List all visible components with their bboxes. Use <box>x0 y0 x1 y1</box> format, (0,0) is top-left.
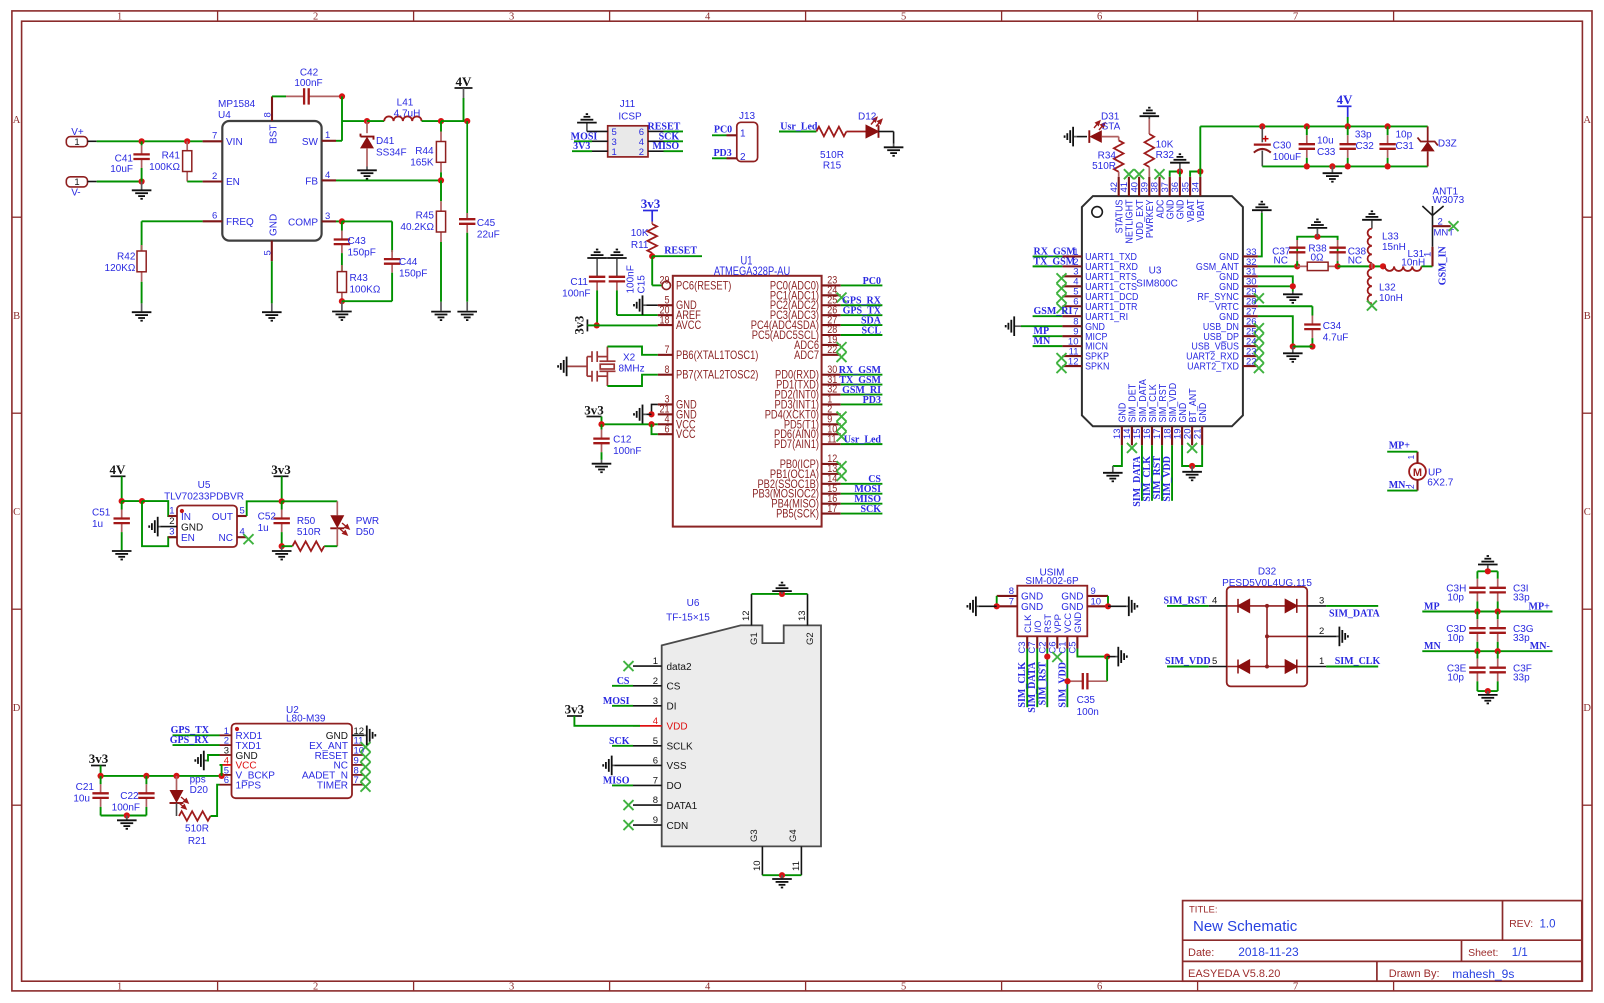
IC U5 TLV70233PDBVR <box>177 506 237 548</box>
wire pin33 to ground <box>1258 213 1262 256</box>
junction <box>124 812 130 818</box>
net label GPS_TX <box>173 734 220 736</box>
svg-text:U6: U6 <box>687 598 700 609</box>
svg-text:STA: STA <box>1102 122 1121 133</box>
svg-text:TF-15×15: TF-15×15 <box>666 612 710 623</box>
svg-text:MISO: MISO <box>653 141 680 152</box>
capacitor C3D 10p <box>1476 612 1478 620</box>
svg-text:Usr_Led: Usr_Led <box>844 435 882 446</box>
svg-text:1: 1 <box>740 129 746 140</box>
svg-text:GSM_IN: GSM_IN <box>1438 246 1449 286</box>
svg-text:5: 5 <box>1212 656 1217 667</box>
U1 pin 2 PD4(XCKT0) <box>822 413 841 415</box>
wire pins 9,10 <box>1107 596 1109 606</box>
ground <box>577 114 597 131</box>
ground GND3 GND21 <box>652 404 658 414</box>
net label MISO <box>612 784 633 786</box>
svg-text:TX_GSM: TX_GSM <box>1034 256 1076 267</box>
svg-text:7: 7 <box>354 775 359 786</box>
svg-text:100KΩ: 100KΩ <box>350 285 381 296</box>
svg-text:IN: IN <box>181 512 191 523</box>
junction <box>1309 343 1315 349</box>
svg-text:3: 3 <box>509 981 514 992</box>
svg-text:9: 9 <box>1091 586 1096 597</box>
svg-text:7: 7 <box>212 131 217 142</box>
svg-text:7: 7 <box>1293 981 1298 992</box>
svg-text:6X2.7: 6X2.7 <box>1427 478 1454 489</box>
capacitor C42 <box>272 95 286 97</box>
IC U3 SIM800C <box>1082 196 1243 426</box>
U6 pin 9 CDN <box>633 824 662 826</box>
U2 pin 9 NC <box>352 764 364 766</box>
svg-text:C44: C44 <box>399 257 418 268</box>
wire bottom <box>1477 690 1497 692</box>
svg-text:6: 6 <box>1097 981 1102 992</box>
no-connect <box>361 752 371 762</box>
net label CS <box>612 685 633 687</box>
svg-text:GND: GND <box>1219 282 1239 292</box>
svg-text:D12: D12 <box>858 112 877 123</box>
svg-text:REV:: REV: <box>1509 918 1533 930</box>
svg-text:SIM_CLK: SIM_CLK <box>1147 384 1157 423</box>
svg-text:C: C <box>13 507 20 518</box>
svg-text:GND: GND <box>1117 402 1127 422</box>
ground <box>132 303 152 320</box>
net label TX_GSM <box>841 384 883 386</box>
U1 pin 26 PC3(ADC3) <box>822 314 841 316</box>
ground <box>1252 202 1272 213</box>
svg-text:COMP: COMP <box>288 218 318 229</box>
ground <box>1116 647 1127 667</box>
U6 pin 4 VDD <box>633 725 662 727</box>
U3 pin 4 UART1_CTS <box>1062 285 1082 287</box>
net label MISO <box>841 503 883 505</box>
svg-text:USB_DN: USB_DN <box>1203 321 1239 331</box>
U6 pin 7 DO <box>633 784 662 786</box>
svg-text:VCC: VCC <box>676 429 696 441</box>
no-connect <box>361 742 371 752</box>
diode pair <box>1227 666 1308 668</box>
pin J11-2 MISO <box>648 150 664 152</box>
ground <box>195 751 206 771</box>
U3 pin 9 MICP <box>1062 335 1082 337</box>
U3 pin 24 USB_VBUS <box>1243 345 1258 347</box>
U3 pin 21 GND <box>1201 426 1203 445</box>
net label SCK <box>841 513 883 515</box>
ground <box>457 302 477 320</box>
junction <box>464 118 470 124</box>
svg-text:8: 8 <box>664 364 669 376</box>
junction <box>119 498 125 504</box>
no-connect <box>1254 363 1264 373</box>
svg-text:M: M <box>1413 467 1422 479</box>
U6 pin 2 CS <box>633 685 662 687</box>
svg-text:EASYEDA V5.8.20: EASYEDA V5.8.20 <box>1188 968 1280 980</box>
ground <box>1283 292 1303 303</box>
no-connect pin14 <box>1127 443 1137 453</box>
svg-text:V+: V+ <box>71 127 84 138</box>
svg-text:C15: C15 <box>637 275 648 294</box>
svg-text:FB: FB <box>305 177 318 188</box>
U5 pin 2 GND <box>149 517 160 537</box>
svg-text:NC: NC <box>1348 256 1362 267</box>
wire 4V rail <box>1262 125 1427 127</box>
svg-text:R42: R42 <box>117 252 136 263</box>
wire pins19,21 to ground <box>1182 445 1202 466</box>
svg-text:GND: GND <box>1219 252 1239 262</box>
pin J11-3 MOSI <box>592 140 608 142</box>
svg-text:9: 9 <box>653 815 658 826</box>
pin 3 COMP <box>322 220 336 222</box>
svg-text:6: 6 <box>1097 12 1102 23</box>
U1 pin 9 PD5(T1) <box>822 423 841 425</box>
svg-text:DO: DO <box>667 781 682 792</box>
pin J13-2 PD3 <box>727 157 737 159</box>
capacitor C3E 10p <box>1476 651 1478 659</box>
IC U6 TF-15x15 micro SD socket <box>662 625 821 846</box>
capacitor C22 100nF <box>145 776 147 784</box>
wire 4V to IN <box>122 500 142 502</box>
wire COMP <box>336 220 342 222</box>
USIM pin C1 VCC <box>1066 636 1068 648</box>
svg-text:6: 6 <box>212 211 217 222</box>
svg-text:SIM_VDD: SIM_VDD <box>1165 656 1211 667</box>
wire AVCC rail <box>597 324 658 326</box>
svg-text:SIM_VDD: SIM_VDD <box>1162 456 1173 502</box>
svg-text:6: 6 <box>664 424 669 436</box>
U2 pin 1 RXD1 <box>220 734 232 736</box>
U3 pin 15 SIM_DATA <box>1141 426 1143 445</box>
port V+ <box>66 137 87 147</box>
U3 pin 40 VDD_EXT <box>1138 177 1140 196</box>
U3 pin 6 UART1_DTR <box>1062 305 1082 307</box>
svg-text:MOSI: MOSI <box>603 696 630 707</box>
svg-text:VRTC: VRTC <box>1215 302 1239 312</box>
svg-text:SCLK: SCLK <box>667 742 693 753</box>
svg-text:1: 1 <box>117 981 122 992</box>
net label MOSI <box>574 140 592 142</box>
wire VIN rail <box>97 140 203 142</box>
svg-text:C35: C35 <box>1077 695 1096 706</box>
wire to PC6 <box>651 256 653 285</box>
svg-text:10p: 10p <box>1447 593 1464 604</box>
svg-text:2: 2 <box>740 152 746 163</box>
net label GSM_RI <box>1033 315 1063 317</box>
U3 pin 39 PWRKEY <box>1148 177 1150 196</box>
net label MN- <box>1387 490 1417 492</box>
svg-text:L80-M39: L80-M39 <box>286 714 326 725</box>
svg-text:C22: C22 <box>120 791 139 802</box>
svg-text:18: 18 <box>659 315 669 327</box>
net label SCK <box>664 140 684 142</box>
D32 pin 1 <box>1307 666 1326 668</box>
pin 5 GND <box>271 241 273 262</box>
wire GSM_ANT <box>1258 265 1297 267</box>
pin 1 SW <box>322 140 336 142</box>
svg-text:R32: R32 <box>1156 150 1175 161</box>
svg-text:10K: 10K <box>1156 140 1174 151</box>
ground bottom <box>1478 691 1498 703</box>
wire SW to rail <box>341 96 343 140</box>
wire VCC rail <box>602 423 658 425</box>
svg-text:4V: 4V <box>1337 92 1354 107</box>
U6 pin 1 data2 <box>633 665 662 667</box>
ground <box>117 816 137 829</box>
no-connect <box>1124 169 1134 179</box>
svg-text:1: 1 <box>1319 656 1324 667</box>
svg-text:U4: U4 <box>218 110 231 121</box>
U1 pin 32 PD2(INT0) <box>822 393 841 395</box>
svg-text:3V3: 3V3 <box>573 141 590 152</box>
U3 pin 35 VBAT <box>1189 177 1191 196</box>
svg-text:1.0: 1.0 <box>1540 919 1556 931</box>
U1 pin 13 PB1(OC1A) <box>822 473 841 475</box>
pin 6 FREQ <box>203 220 223 222</box>
wire SIM_VDD <box>1171 445 1173 501</box>
svg-text:UART1_DCD: UART1_DCD <box>1085 292 1139 302</box>
svg-text:GSM_RI: GSM_RI <box>1034 306 1073 317</box>
inductor L32 10nH <box>1371 266 1373 269</box>
U3 pin 20 BT_ANT <box>1191 426 1193 445</box>
LED D50 PWR <box>330 515 344 528</box>
svg-text:GND: GND <box>181 522 203 533</box>
U3 pin 38 ADC <box>1158 177 1160 196</box>
svg-text:mahesh_9s: mahesh_9s <box>1452 967 1514 981</box>
svg-text:3v3: 3v3 <box>271 462 291 477</box>
svg-text:34: 34 <box>1191 182 1202 193</box>
ground <box>1323 166 1343 181</box>
svg-text:DATA1: DATA1 <box>667 801 698 812</box>
no-connect <box>1254 343 1264 353</box>
resistor R11 10K <box>651 222 653 225</box>
svg-text:3v3: 3v3 <box>573 316 587 335</box>
svg-text:MP: MP <box>1424 601 1440 612</box>
svg-text:TIMER: TIMER <box>317 781 348 792</box>
U3 pin 34 VBAT <box>1199 177 1201 196</box>
svg-text:1: 1 <box>117 12 122 23</box>
svg-text:2018-11-23: 2018-11-23 <box>1238 945 1299 959</box>
wire pin27 GND <box>1258 316 1293 346</box>
net label GSM_RI <box>841 394 883 396</box>
svg-text:PC6(RESET): PC6(RESET) <box>676 281 731 293</box>
junction <box>1345 123 1351 129</box>
wire bottom rail <box>1262 165 1427 167</box>
no-connect <box>1134 169 1144 179</box>
wire SIM_RST <box>1161 445 1163 501</box>
USIM pin C5 GND <box>1076 636 1078 648</box>
svg-text:R41: R41 <box>162 151 181 162</box>
svg-text:40.2KΩ: 40.2KΩ <box>400 222 434 233</box>
U1 pin 8 PB7(XTAL2TOSC2) <box>658 374 673 376</box>
svg-text:5: 5 <box>240 506 245 517</box>
U2 pin 5 V_BCKP <box>220 774 232 776</box>
junction <box>143 773 149 779</box>
junction <box>339 93 345 99</box>
U5 pin 4 NC <box>237 536 247 538</box>
svg-text:15nH: 15nH <box>1382 242 1406 253</box>
svg-text:MN: MN <box>1424 641 1441 652</box>
net label MOSI <box>612 705 633 707</box>
svg-text:MP+: MP+ <box>1389 441 1411 452</box>
svg-text:EN: EN <box>226 177 240 188</box>
wire pins31,30 to ground <box>1258 276 1293 286</box>
wire SIM_RST <box>1046 649 1048 708</box>
net label RESET <box>664 130 684 132</box>
capacitor C30 100uF polarized <box>1261 126 1263 142</box>
ground <box>112 550 132 559</box>
net label SDA <box>841 324 883 326</box>
U6 pin 12 G1 <box>751 594 753 626</box>
junction <box>1304 123 1310 129</box>
no-connect <box>837 471 847 481</box>
U2 pin 6 1PPS <box>220 784 232 786</box>
svg-text:1u: 1u <box>92 519 103 530</box>
svg-text:GND: GND <box>1219 311 1239 321</box>
svg-text:PWRKEY: PWRKEY <box>1145 200 1155 239</box>
svg-text:1: 1 <box>653 656 658 667</box>
D32 pin 5 <box>1209 666 1227 668</box>
svg-text:SW: SW <box>302 137 319 148</box>
junction <box>1335 263 1341 269</box>
svg-text:USB_DP: USB_DP <box>1203 331 1239 341</box>
USIM pin C6 VPP <box>1056 636 1058 648</box>
svg-text:33p: 33p <box>1513 593 1530 604</box>
U3 pin 36 GND <box>1179 177 1181 196</box>
svg-text:150pF: 150pF <box>399 269 427 280</box>
ground <box>967 597 978 617</box>
diode pair <box>1227 605 1308 607</box>
junction <box>339 218 345 224</box>
svg-text:13: 13 <box>797 610 808 621</box>
U5 pin 3 EN <box>168 536 177 538</box>
svg-text:U3: U3 <box>1149 266 1162 277</box>
svg-text:100KΩ: 100KΩ <box>149 162 180 173</box>
svg-text:33p: 33p <box>1513 633 1530 644</box>
U3 pin 10 MICN <box>1062 345 1082 347</box>
svg-text:7: 7 <box>1293 12 1298 23</box>
svg-text:TLV70233PDBVR: TLV70233PDBVR <box>164 492 244 503</box>
U1 pin 6 VCC <box>658 433 673 435</box>
svg-text:21: 21 <box>1192 429 1203 440</box>
no-connect <box>1155 169 1165 179</box>
svg-text:10nH: 10nH <box>1379 293 1403 304</box>
U6 pin 10 G3 <box>761 846 763 875</box>
U3 pin 14 SIM_DET <box>1131 426 1133 445</box>
svg-text:Usr_Led: Usr_Led <box>780 122 818 133</box>
U3 pin 42 STATUS <box>1118 177 1120 196</box>
svg-text:11: 11 <box>791 861 802 871</box>
ground GND5 <box>634 295 646 315</box>
net label GPS_RX <box>841 304 883 306</box>
wire pin13 to ground <box>1113 445 1122 466</box>
U1 pin 29 PC6(RESET) <box>670 284 672 286</box>
svg-text:7: 7 <box>664 344 669 356</box>
U5 pin 1 IN <box>168 515 177 517</box>
svg-text:pps: pps <box>190 775 206 786</box>
svg-text:C42: C42 <box>300 68 319 79</box>
svg-text:SIM_DATA: SIM_DATA <box>1137 378 1147 422</box>
svg-text:FREQ: FREQ <box>226 217 254 228</box>
capacitor C12 <box>601 424 603 429</box>
junction <box>1385 163 1391 169</box>
D32 pin 3 <box>1307 605 1326 607</box>
U1 pin 14 PB2(SSOC1B) <box>822 483 841 485</box>
svg-text:2: 2 <box>313 12 318 23</box>
svg-text:4: 4 <box>705 12 711 23</box>
svg-text:A: A <box>13 115 21 126</box>
capacitor C37 NC <box>1296 248 1298 267</box>
no-connect <box>1449 221 1459 231</box>
net label SCL <box>841 334 883 336</box>
svg-text:C34: C34 <box>1323 321 1342 332</box>
svg-text:D50: D50 <box>356 527 375 538</box>
svg-text:GND: GND <box>1021 592 1043 603</box>
svg-text:BST: BST <box>269 125 280 144</box>
U6 pin 5 SCLK <box>633 745 662 747</box>
svg-text:7: 7 <box>1009 596 1014 607</box>
svg-text:GND: GND <box>1175 199 1185 219</box>
no-connect <box>1057 303 1067 313</box>
svg-text:VDD: VDD <box>667 722 688 733</box>
net label PC0 <box>712 134 727 136</box>
wire COMP to C44 <box>342 220 392 222</box>
pin 8 BST <box>271 96 273 121</box>
U1 pin 11 PD7(AIN1) <box>822 443 841 445</box>
wire to L31 <box>1338 265 1385 267</box>
svg-text:2: 2 <box>212 171 217 182</box>
capacitor C45 <box>466 121 468 219</box>
svg-text:510R: 510R <box>185 824 209 835</box>
svg-text:D3Z: D3Z <box>1438 139 1457 150</box>
svg-text:10nH: 10nH <box>1401 257 1425 268</box>
IC U1 ATMEGA328P-AU <box>673 276 822 527</box>
ground <box>1170 154 1190 171</box>
svg-text:CS: CS <box>617 676 630 687</box>
wire SIM_DATA <box>1141 445 1143 501</box>
pin 2 EN <box>203 180 223 182</box>
svg-text:SPKP: SPKP <box>1085 351 1109 361</box>
U6 pin 11 G4 <box>800 846 802 875</box>
svg-text:3v3: 3v3 <box>565 702 585 717</box>
capacitor C52 1u <box>281 501 283 509</box>
U1 pin 20 AREF <box>658 314 673 316</box>
no-connect <box>837 352 847 362</box>
svg-text:MN-: MN- <box>1530 641 1550 652</box>
svg-text:MICN: MICN <box>1085 341 1108 351</box>
U1 pin 18 AVCC <box>658 324 673 326</box>
no-connect <box>361 782 371 792</box>
svg-text:GND: GND <box>1073 612 1084 633</box>
svg-text:G4: G4 <box>788 829 799 842</box>
svg-text:3: 3 <box>325 211 330 222</box>
svg-text:1: 1 <box>612 147 617 158</box>
U3 pin 25 USB_DP <box>1243 335 1258 337</box>
svg-text:GND: GND <box>1219 272 1239 282</box>
svg-text:8: 8 <box>1009 586 1014 597</box>
U2 pin 3 GND <box>220 754 232 756</box>
svg-text:GND: GND <box>1061 602 1083 613</box>
ground <box>1308 219 1328 236</box>
capacitor C35 100n <box>1106 657 1108 682</box>
wire D12 to gnd <box>879 131 894 133</box>
resistor R41 <box>186 141 188 150</box>
svg-text:22uF: 22uF <box>477 230 500 241</box>
junction <box>279 543 285 549</box>
ground <box>132 182 152 199</box>
USIM pin C3 CLK <box>1026 636 1028 648</box>
svg-text:UART1_TXD: UART1_TXD <box>1085 252 1137 262</box>
ground <box>262 303 282 320</box>
